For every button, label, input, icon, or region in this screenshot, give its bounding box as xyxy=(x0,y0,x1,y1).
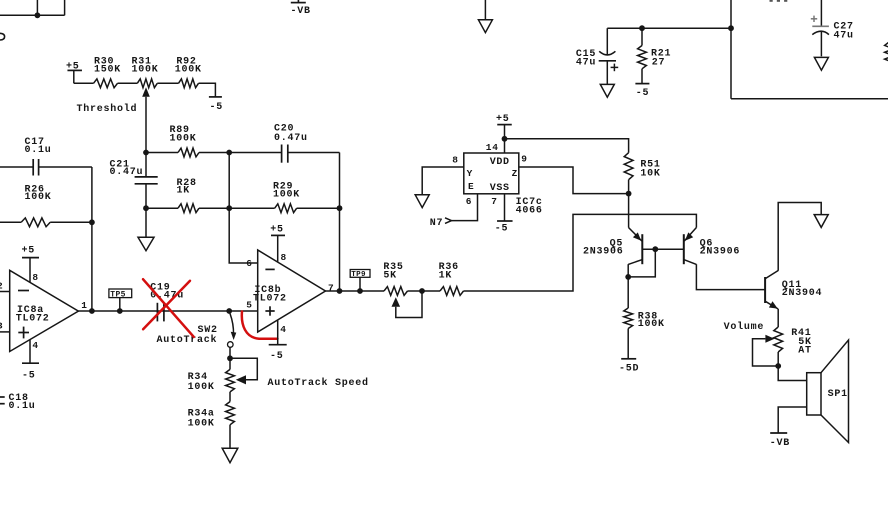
power -VB top xyxy=(291,0,311,17)
wire base to Q5 collector xyxy=(628,249,655,277)
wire IC8a pin3 input xyxy=(0,331,10,333)
net flag N7 xyxy=(430,218,452,229)
wire top-right box bottom edge xyxy=(731,98,888,100)
resistor R30 150K xyxy=(94,56,122,87)
svg-text:0.1u: 0.1u xyxy=(25,145,52,156)
wire 4066 pin6 E to N7 xyxy=(452,194,478,221)
resistor R34a 100K xyxy=(188,392,235,448)
wire R51 junction to Q5 emitter xyxy=(628,194,630,228)
svg-text:Y: Y xyxy=(467,168,473,179)
resistor R26 100K xyxy=(0,184,92,226)
svg-text:TL072: TL072 xyxy=(253,294,287,305)
power -5 IC8a pin4 xyxy=(22,340,39,382)
test point TP5 xyxy=(109,289,132,311)
svg-text:Z: Z xyxy=(512,168,518,179)
wire -VB rail horizontal xyxy=(607,27,731,29)
power -5 IC8b pin4 xyxy=(269,320,287,362)
wire R36 output to Q6 emitter xyxy=(464,214,697,291)
ground below C15 xyxy=(600,84,614,97)
svg-text:100K: 100K xyxy=(638,319,665,330)
resistor R29 100K xyxy=(229,181,339,212)
svg-text:100K: 100K xyxy=(188,382,215,393)
ground at Q11 collector xyxy=(814,215,828,228)
node threshold-C21-R89 junction xyxy=(143,150,149,156)
svg-text:N7: N7 xyxy=(430,218,444,229)
power -5 threshold xyxy=(209,97,223,113)
svg-text:4: 4 xyxy=(280,324,286,335)
svg-text:AT: AT xyxy=(798,346,812,357)
capacitor C19 0.47u xyxy=(150,282,184,321)
wire IC8a output to IC8b pin5 xyxy=(78,310,257,312)
partial text at top edge xyxy=(770,0,788,2)
svg-text:TP5: TP5 xyxy=(110,290,125,299)
svg-text:7: 7 xyxy=(491,196,497,207)
wire Q11 collector to ground xyxy=(778,203,821,271)
wire Q11 emitter to R41 xyxy=(777,309,779,327)
svg-text:-5: -5 xyxy=(495,223,509,234)
wire R31 to R92 xyxy=(157,82,178,84)
svg-text:1K: 1K xyxy=(439,271,453,282)
capacitor C17 0.1u xyxy=(0,137,92,175)
svg-text:-5: -5 xyxy=(636,88,650,99)
svg-text:47u: 47u xyxy=(834,31,854,42)
svg-text:5: 5 xyxy=(246,300,252,311)
wire top-right box left edge xyxy=(730,0,732,99)
resistor R92 100K xyxy=(175,56,202,87)
svg-text:+5: +5 xyxy=(270,225,284,236)
node R89-C20 junction xyxy=(226,150,232,156)
svg-text:0.1u: 0.1u xyxy=(9,401,36,412)
capacitor C20 0.47u xyxy=(229,124,339,163)
svg-text:150K: 150K xyxy=(94,64,121,75)
power +5 IC8a pin8 xyxy=(22,245,40,282)
svg-text:2N3904: 2N3904 xyxy=(782,288,823,299)
svg-text:-5D: -5D xyxy=(619,364,639,375)
resistor partial at right edge xyxy=(885,42,888,66)
node TP9 junction xyxy=(357,288,363,294)
svg-text:10K: 10K xyxy=(640,168,660,179)
node R21 top junction xyxy=(639,25,645,31)
svg-text:4066: 4066 xyxy=(516,205,543,216)
power +5 IC8b pin8 xyxy=(270,225,285,262)
svg-text:AutoTrack: AutoTrack xyxy=(157,334,218,346)
node IC8a output junction xyxy=(89,308,95,314)
node R26 feedback junction xyxy=(89,219,95,225)
svg-text:8: 8 xyxy=(452,154,458,165)
svg-text:47u: 47u xyxy=(576,57,596,68)
wire R92 to -5 xyxy=(199,83,216,97)
wire R41 to speaker xyxy=(778,366,807,381)
node Q5 collector junction xyxy=(625,274,631,280)
wire top-left box vertical 1 xyxy=(36,0,38,15)
node pin14 junction xyxy=(502,136,508,142)
red rerouting arc at IC8b pin5 xyxy=(242,312,278,339)
resistor R36 1K xyxy=(439,262,464,296)
svg-text:Volume: Volume xyxy=(724,321,765,333)
power -5D below R38 xyxy=(619,359,639,375)
capacitor C15 47u xyxy=(576,28,618,84)
node C19 right junction xyxy=(226,308,232,314)
wire speaker bottom terminal xyxy=(778,407,807,433)
node IC8b feedback junction xyxy=(337,288,343,294)
node base link junction xyxy=(652,246,658,252)
node rail to box junction xyxy=(728,25,734,31)
svg-text:27: 27 xyxy=(652,57,666,68)
svg-text:TL072: TL072 xyxy=(16,314,50,325)
node R28-R29 junction xyxy=(226,205,232,211)
power -VB below speaker xyxy=(770,433,790,449)
resistor R38 100K xyxy=(624,308,665,359)
svg-text:6: 6 xyxy=(246,258,252,269)
svg-text:100K: 100K xyxy=(170,133,197,144)
op-amp IC8a TL072 xyxy=(0,270,88,351)
test point TP9 xyxy=(350,270,370,292)
power -5 4066 pin7 xyxy=(495,194,513,235)
resistor R28 1K xyxy=(146,178,229,213)
svg-text:VSS: VSS xyxy=(490,183,510,194)
transistor Q11 2N3904 xyxy=(765,271,822,310)
ground below R34a xyxy=(222,448,238,463)
red X over C19 xyxy=(143,279,194,337)
ground below C27 xyxy=(814,57,828,70)
transistor Q5 2N3906 xyxy=(583,228,642,309)
node R41 bottom junction xyxy=(775,363,781,369)
svg-text:100K: 100K xyxy=(273,189,300,200)
node top-left junction xyxy=(35,12,41,18)
power -5 below R21 xyxy=(635,84,649,100)
svg-text:100K: 100K xyxy=(188,418,215,429)
potentiometer R41 5K AT xyxy=(753,327,812,366)
svg-text:100K: 100K xyxy=(175,64,202,75)
wire R35 to R36 xyxy=(408,290,441,292)
resistor R51 10K xyxy=(624,153,660,194)
svg-text:-5: -5 xyxy=(22,371,36,382)
switch SW2 AutoTrack xyxy=(157,314,237,348)
svg-text:4: 4 xyxy=(32,340,38,351)
ground top middle xyxy=(478,0,492,33)
svg-text:100K: 100K xyxy=(132,64,159,75)
node TP5 junction xyxy=(117,308,123,314)
svg-text:8: 8 xyxy=(281,252,287,263)
wire feedback vertical to IC8a output xyxy=(91,167,93,311)
svg-text:2: 2 xyxy=(0,280,3,291)
wire pin14 to R51 top xyxy=(505,139,629,153)
svg-text:3: 3 xyxy=(0,321,3,332)
wire IC8b output xyxy=(326,290,385,292)
wire IC8a pin2 input xyxy=(0,291,10,293)
partial letter D at left edge xyxy=(0,33,5,40)
ground at 4066 pin8 xyxy=(415,195,429,208)
capacitor C27 47u xyxy=(811,0,854,56)
wire switch to R34 xyxy=(229,347,231,358)
svg-text:100K: 100K xyxy=(25,192,52,203)
node R51 bottom junction xyxy=(626,191,632,197)
svg-text:1K: 1K xyxy=(177,186,191,197)
svg-text:-VB: -VB xyxy=(291,6,311,17)
wire 4066 pin14 VDD xyxy=(504,139,506,153)
svg-text:VDD: VDD xyxy=(490,157,510,168)
wire C20-R29 left vertical to pin6 xyxy=(229,153,258,264)
svg-text:1: 1 xyxy=(81,300,87,311)
svg-text:0.47u: 0.47u xyxy=(274,133,308,144)
transistor Q6 2N3906 xyxy=(684,228,765,290)
resistor R21 27 xyxy=(638,28,672,83)
wire Q5-Q6 base link xyxy=(642,248,684,250)
svg-text:5K: 5K xyxy=(383,271,397,282)
wire top-left box vertical 2 xyxy=(64,0,66,15)
op-amp IC8b TL072 xyxy=(246,250,334,335)
wire +5 to R30 xyxy=(74,82,94,84)
svg-text:+5: +5 xyxy=(496,114,510,125)
svg-text:14: 14 xyxy=(486,142,499,153)
wire R30 to R31 xyxy=(118,82,138,84)
wire C20-R29 right vertical to output xyxy=(339,153,341,292)
ground below C21 xyxy=(138,237,154,251)
svg-text:-VB: -VB xyxy=(770,438,790,449)
svg-text:AutoTrack Speed: AutoTrack Speed xyxy=(268,377,369,389)
svg-text:2N3906: 2N3906 xyxy=(583,247,624,258)
svg-text:E: E xyxy=(468,181,474,192)
svg-text:TP9: TP9 xyxy=(351,271,366,279)
wire top-left box horizontal xyxy=(0,14,65,16)
svg-text:6: 6 xyxy=(466,196,472,207)
svg-text:8: 8 xyxy=(32,272,38,283)
resistor R89 100K xyxy=(146,125,229,157)
power +5 threshold xyxy=(66,62,82,84)
svg-text:SP1: SP1 xyxy=(828,389,848,400)
wire 4066 pin9 Z to R51 bottom xyxy=(519,167,629,194)
potentiometer R31 100K xyxy=(132,56,159,152)
svg-text:9: 9 xyxy=(521,153,527,164)
potentiometer R34 100K xyxy=(188,358,258,393)
node switch-R34 junction xyxy=(227,355,233,361)
capacitor C18 0.1u partial xyxy=(0,393,36,412)
svg-text:-5: -5 xyxy=(270,351,284,362)
node R35 wiper junction xyxy=(419,288,425,294)
potentiometer R35 5K xyxy=(383,262,422,318)
svg-text:+5: +5 xyxy=(22,245,36,256)
wire 4066 pin8 Y to ground xyxy=(422,167,464,195)
analog switch IC7c 4066 xyxy=(452,142,542,216)
svg-text:Threshold: Threshold xyxy=(77,103,138,115)
speaker SP1 xyxy=(807,340,849,443)
power +5 4066 pin14 xyxy=(496,114,512,139)
svg-text:2N3906: 2N3906 xyxy=(700,247,741,258)
node C21-R28 junction xyxy=(143,205,149,211)
svg-text:-5: -5 xyxy=(210,102,224,113)
node R29 right junction xyxy=(337,205,343,211)
capacitor C21 0.47u xyxy=(110,153,158,238)
